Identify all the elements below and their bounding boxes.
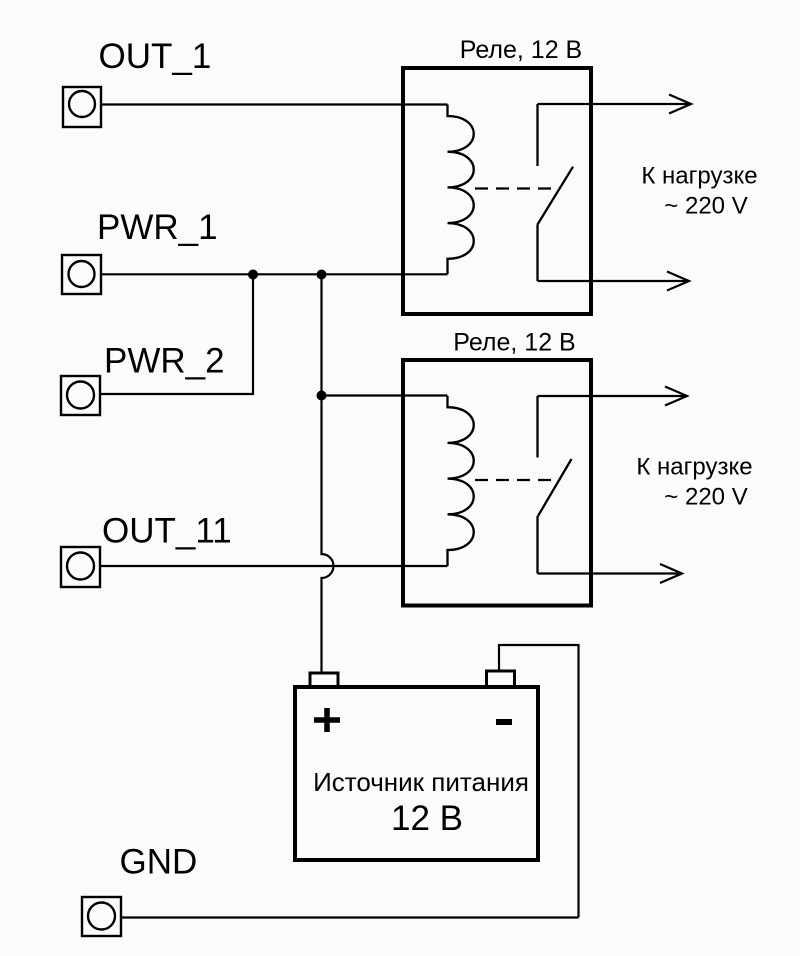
wire PWR_1 to relay K1 coil [101, 273, 448, 275]
battery plus sign [314, 708, 340, 732]
arrow head K2 top [665, 387, 687, 406]
wire relay K1 NO contact top to load arrow [538, 103, 689, 105]
junction dot 12V bus / relay K2 coil [317, 391, 327, 401]
svg-text:Источник питания: Источник питания [313, 767, 529, 797]
relay K1 coil [448, 105, 474, 275]
wire GND to battery negative [121, 916, 579, 918]
wire PWR_2 riser to PWR_1 [101, 275, 253, 395]
wire OUT_1 to relay K1 coil [101, 103, 448, 105]
battery negative terminal block [487, 671, 515, 687]
arrow head K1 bottom [667, 272, 689, 291]
battery positive terminal block [310, 673, 338, 687]
relay K1 coupling dashed line [475, 187, 554, 189]
battery minus sign [496, 719, 512, 725]
relay K2 coil [448, 396, 474, 566]
terminal PWR_1 [62, 255, 101, 294]
arrow head K2 bottom [660, 564, 682, 583]
svg-text:~ 220 V: ~ 220 V [664, 484, 747, 511]
terminal OUT_1 [63, 87, 101, 127]
junction dot PWR_1 / 12V bus [317, 270, 327, 280]
svg-text:OUT_11: OUT_11 [102, 512, 232, 551]
wire relay K2 NO contact top to load arrow [538, 395, 685, 397]
terminal OUT_11 [61, 547, 100, 587]
relay K1 box [403, 68, 591, 314]
wire battery negative up over and down [499, 645, 579, 918]
svg-text:К нагрузке: К нагрузке [641, 163, 757, 190]
relay K2 switch contact [538, 396, 572, 574]
svg-text:PWR_1: PWR_1 [97, 208, 218, 247]
battery box [295, 687, 538, 860]
wire relay K2 contact bottom to load arrow [538, 572, 680, 574]
junction dot PWR_1 / PWR_2 [248, 270, 258, 280]
relay K2 coupling dashed line [475, 479, 554, 481]
svg-text:OUT_1: OUT_1 [99, 37, 212, 76]
wire 12V bus from PWR_1 down with hop over OUT_11 wire to battery + [322, 275, 334, 674]
terminal PWR_2 [61, 376, 100, 415]
wire relay K1 contact bottom to load arrow [538, 280, 687, 282]
svg-text:GND: GND [120, 843, 198, 882]
arrow head K1 top [669, 95, 691, 114]
terminal GND [82, 897, 121, 936]
svg-text:12 В: 12 В [391, 799, 463, 838]
svg-text:К нагрузке: К нагрузке [636, 454, 752, 481]
svg-text:PWR_2: PWR_2 [104, 342, 225, 381]
relay K1 switch contact [538, 104, 574, 281]
wire 12V bus to relay K2 coil [322, 394, 448, 396]
svg-text:~ 220 V: ~ 220 V [664, 193, 747, 220]
wire OUT_11 to relay K2 coil [100, 565, 448, 567]
svg-text:Реле, 12 В: Реле, 12 В [453, 329, 575, 357]
relay K2 box [403, 360, 591, 606]
svg-text:Реле, 12 В: Реле, 12 В [460, 36, 582, 64]
